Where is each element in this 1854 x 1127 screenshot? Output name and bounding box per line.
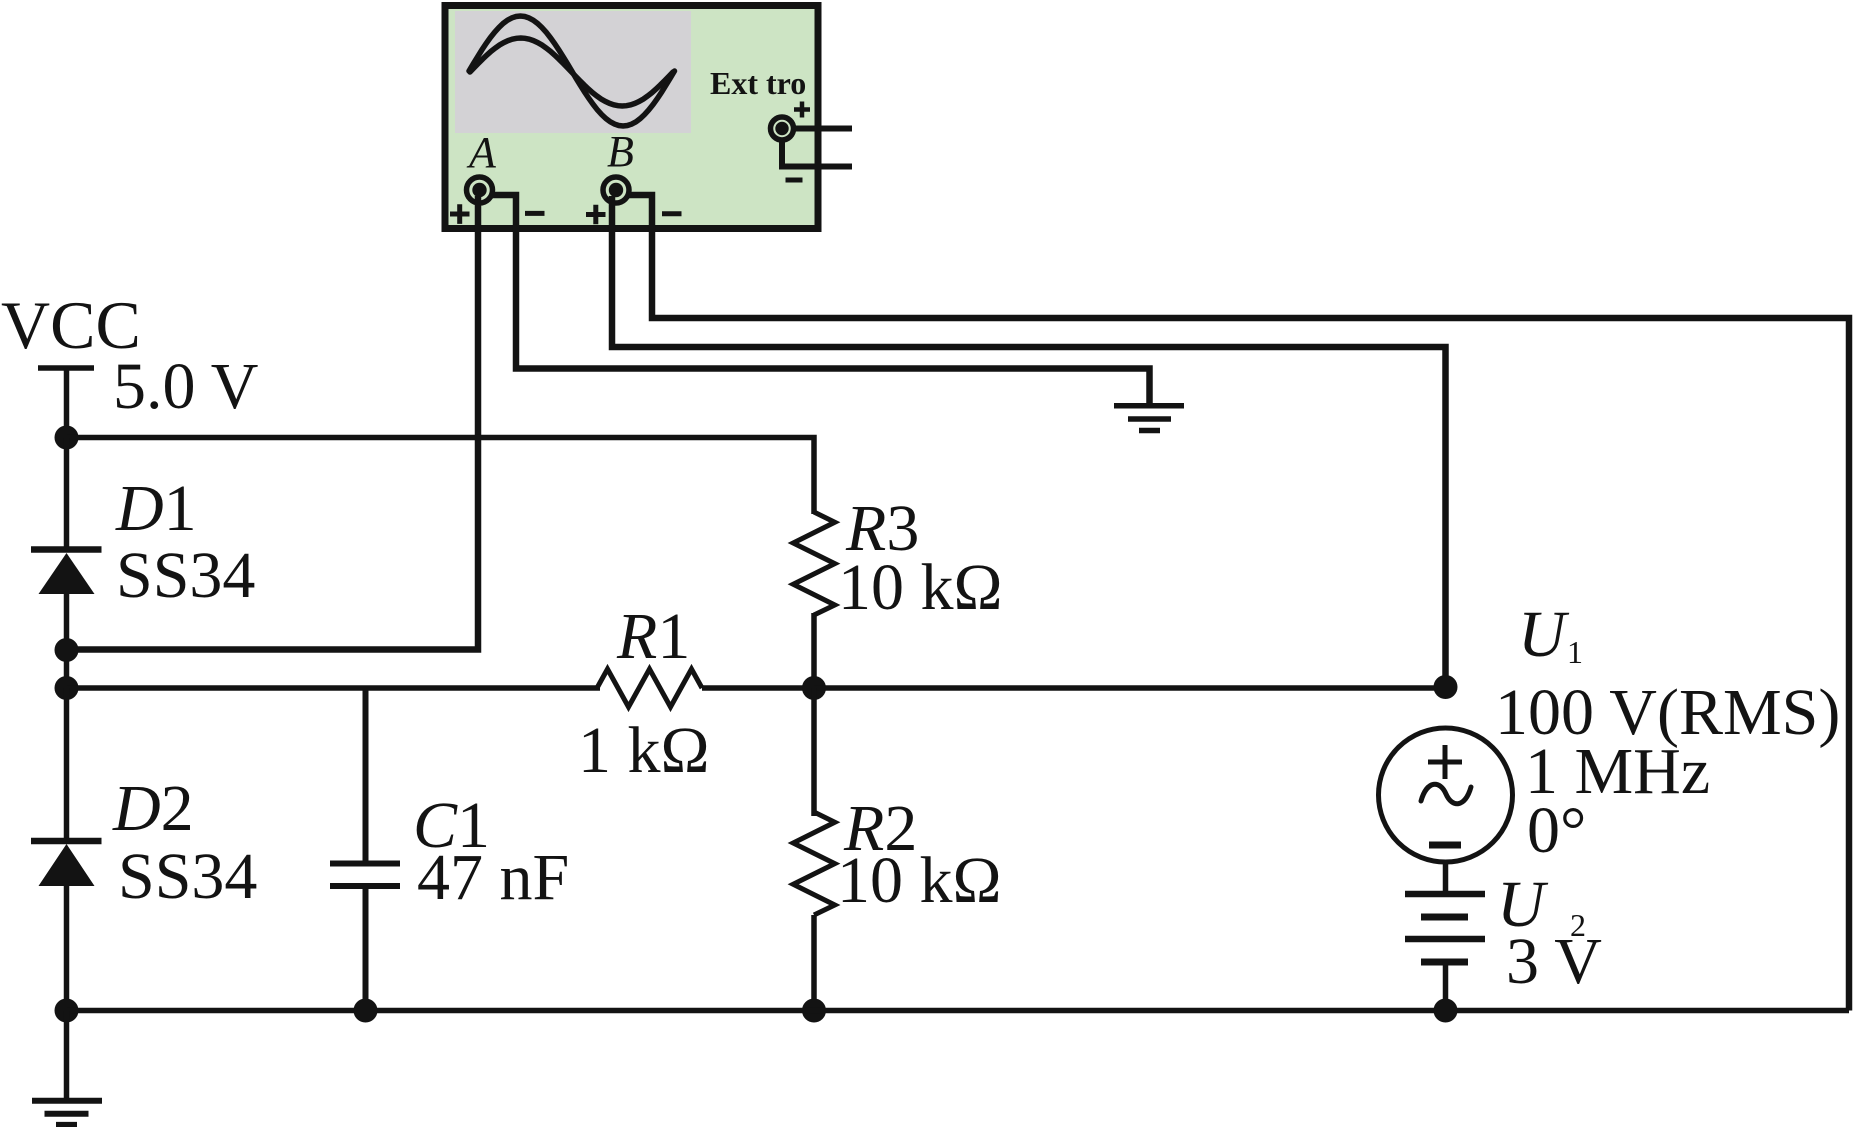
svg-text:10 kΩ: 10 kΩ: [838, 551, 1003, 624]
node mid-rail left junction: [55, 676, 79, 700]
svg-text:5.0 V: 5.0 V: [113, 350, 258, 423]
wire R2 bottom lead: [811, 915, 817, 1011]
AC source U1: [1379, 728, 1513, 862]
terminal A plus mark: [450, 204, 470, 224]
wire D1 anode to node: [64, 594, 70, 688]
svg-text:10 kΩ: 10 kΩ: [837, 844, 1002, 917]
svg-text:0°: 0°: [1527, 794, 1586, 867]
svg-text:B: B: [607, 127, 634, 176]
node C1 bottom junction: [354, 999, 378, 1023]
capacitor C1: [330, 864, 400, 887]
svg-text:SS34: SS34: [116, 539, 255, 612]
U1 plus mark: [1428, 745, 1462, 779]
wire Ext trigger stubs: [782, 129, 852, 167]
scope trace sine inner: [470, 38, 673, 106]
Ext trigger terminal: [771, 117, 794, 140]
wire bottom rail: [67, 1008, 1850, 1014]
node U2 bottom junction: [1434, 999, 1458, 1023]
wire channel A minus to ground: [490, 195, 1150, 403]
svg-text:1 kΩ: 1 kΩ: [578, 714, 710, 787]
svg-text:SS34: SS34: [118, 840, 257, 913]
scope trace sine outer: [469, 16, 675, 126]
node VCC junction: [55, 426, 79, 450]
terminal A: [467, 177, 493, 203]
wire mid rail (node to R1): [67, 685, 601, 691]
U1 minus mark: [1429, 842, 1461, 849]
svg-text:1: 1: [1567, 634, 1583, 670]
diode D1: [31, 550, 102, 595]
ground symbol (scope reference): [1114, 406, 1184, 431]
U1 sine mark: [1421, 784, 1471, 804]
svg-text:47 nF: 47 nF: [417, 841, 569, 914]
oscilloscope screen: [455, 11, 691, 133]
oscilloscope XSC1 body: [445, 6, 818, 229]
svg-text:R1: R1: [616, 600, 690, 673]
wire R2 top lead: [811, 688, 817, 816]
wire to main ground: [64, 1011, 70, 1101]
svg-text:U: U: [1518, 598, 1570, 671]
wire D2 branch (left rail down): [64, 688, 70, 842]
terminal B: [603, 177, 629, 203]
terminal B minus mark: [662, 211, 682, 216]
Ext terminal plus mark: [794, 102, 810, 118]
node bottom-left junction: [55, 999, 79, 1023]
wire top rail to R3: [67, 438, 815, 515]
svg-text:D1: D1: [115, 472, 197, 545]
node D1 anode / scope A junction: [55, 638, 79, 662]
wire VCC to top node: [64, 368, 70, 438]
node R2 bottom junction: [802, 999, 826, 1023]
resistor R1: [597, 669, 702, 707]
battery U2: [1405, 894, 1485, 962]
wire mid rail (node to U1): [814, 685, 1446, 691]
wire D2 anode to bottom rail: [64, 886, 70, 1011]
Ext terminal minus mark: [786, 178, 803, 183]
wire C1 bottom lead: [363, 889, 369, 1011]
svg-text:Ext tro: Ext tro: [710, 65, 806, 101]
wire mid rail (R1 to R2/R3 node): [702, 685, 814, 691]
resistor R2: [793, 812, 835, 915]
svg-text:D2: D2: [112, 772, 194, 845]
wire VCC node to D1: [64, 438, 70, 550]
ground symbol (main): [32, 1101, 102, 1125]
node R1/R2/R3 junction: [802, 676, 826, 700]
svg-text:3 V: 3 V: [1506, 925, 1602, 998]
wire channel B minus return (right rail): [628, 195, 1849, 1011]
svg-text:A: A: [466, 128, 497, 177]
diode D2: [31, 841, 102, 886]
wire R3 bottom lead: [811, 613, 817, 688]
wire U2 to bottom rail: [1443, 962, 1449, 1011]
resistor R3: [793, 512, 835, 615]
terminal A minus mark: [525, 211, 545, 216]
wire channel A plus probe: [67, 196, 479, 650]
VCC power bar: [38, 365, 94, 371]
terminal B plus mark: [586, 205, 606, 225]
wire channel B plus probe: [612, 196, 1446, 687]
node U1 top junction: [1434, 675, 1458, 699]
wire U1 to U2: [1443, 861, 1449, 894]
wire C1 top lead: [363, 688, 369, 861]
